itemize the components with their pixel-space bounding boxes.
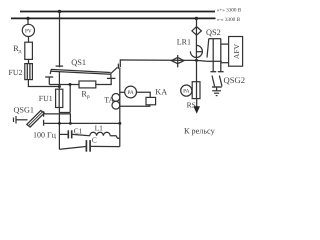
filter right vertical — [119, 123, 121, 146]
QS1 lower-right contact bar — [107, 77, 116, 79]
QS1 fixed contact bar — [56, 65, 64, 67]
wire LR1 to feeder node — [195, 55, 197, 61]
svg-text:KA: KA — [155, 87, 167, 96]
current transformer TA — [112, 94, 120, 102]
svg-text:QS1: QS1 — [71, 58, 86, 67]
wire FU1 lead down (filter left side) — [58, 108, 60, 150]
wire KA return — [120, 105, 150, 106]
bus plus (upper busbar) — [20, 11, 215, 13]
breaker AFV — [229, 37, 243, 67]
svg-text:AFV: AFV — [232, 43, 241, 59]
svg-text:PV: PV — [25, 28, 32, 34]
node on upper bus (QS1 feed) — [58, 10, 61, 13]
svg-text:TA: TA — [104, 96, 114, 105]
wire bus to PV — [27, 18, 29, 24]
bushing insulator 1 — [192, 27, 202, 36]
svg-text:QS2: QS2 — [206, 28, 221, 37]
QSG2 contact bars — [210, 71, 216, 73]
svg-text:Rр: Rр — [81, 89, 89, 100]
node filter top right — [118, 122, 121, 125]
shunt RS — [192, 82, 200, 99]
fuse FU1 — [56, 89, 63, 107]
svg-text:100 Гц: 100 Гц — [33, 131, 57, 140]
svg-text:QSG1: QSG1 — [14, 105, 34, 114]
wire node to RS — [196, 60, 198, 81]
bus minus (lower busbar) — [11, 17, 216, 19]
QSG2 ground stub — [216, 87, 218, 91]
ammeter PA2 — [181, 85, 192, 96]
wire QS1 to feeder line — [120, 60, 207, 67]
arrow to rail — [196, 99, 198, 107]
wire FU2 down and right — [28, 80, 59, 87]
bushing insulator on feeder wire — [171, 58, 184, 64]
node feeder/LR1 — [195, 59, 198, 62]
wire PA1 to KA — [137, 92, 151, 97]
QS1 blade left tail — [50, 69, 51, 74]
wire blade to FU1 — [58, 72, 60, 89]
wire to Rp — [49, 84, 79, 86]
resistor Rd — [25, 42, 33, 59]
resistor Rp — [79, 81, 96, 88]
svg-text:Rд: Rд — [13, 44, 21, 55]
wire QS2 to AFV bottom — [221, 62, 229, 64]
svg-text:QSG2: QSG2 — [224, 75, 246, 85]
node at x70 — [69, 83, 72, 86]
svg-text:PA: PA — [183, 89, 190, 95]
riser Rp wire down — [69, 85, 71, 113]
voltmeter PV — [22, 24, 34, 36]
node FU1 on filter wire — [58, 122, 61, 125]
QSG1 lower terminal bar — [43, 120, 45, 126]
node on lower bus (PV tap) — [26, 17, 29, 20]
svg-text:«-» 3300 В: «-» 3300 В — [217, 17, 241, 23]
wire L1 to right vertical — [110, 136, 120, 139]
inductor L1 — [90, 132, 110, 135]
relay KA — [146, 97, 156, 104]
svg-text:C: C — [92, 136, 97, 145]
stub blade to lower-right contact — [110, 74, 112, 78]
QSG2 bottom bar — [212, 86, 222, 88]
svg-text:«+» 3300 В: «+» 3300 В — [217, 8, 242, 14]
jog FU1 lead to riser — [59, 112, 70, 114]
wire TA to PA1 — [120, 91, 125, 93]
fuse FU2 — [25, 64, 33, 80]
svg-text:PA: PA — [127, 90, 134, 96]
QS1 right contact tick — [117, 64, 119, 69]
node on lower bus (LR1 feed) — [195, 17, 198, 20]
main feeder vertical to TA — [119, 68, 121, 123]
node riser on filter wire — [69, 122, 72, 125]
wire Rp to QS1 lower-right contact — [96, 78, 111, 84]
wire Rd to FU2 — [28, 59, 30, 63]
svg-text:FU2: FU2 — [9, 68, 23, 77]
QSG1 upper terminal bar — [43, 111, 45, 117]
capacitor C1 — [59, 133, 67, 135]
wire bus to LR1 — [195, 18, 197, 54]
node above FU1 — [58, 85, 61, 88]
wire bus to QS1 contact — [59, 12, 61, 68]
svg-text:L1: L1 — [95, 124, 104, 133]
QS2 bottom tie — [207, 60, 222, 62]
wire C1 to L1 — [73, 134, 90, 135]
svg-text:LR1: LR1 — [177, 37, 191, 46]
QS1 blade rising tip — [111, 67, 118, 74]
stub from lower-left contact — [48, 77, 50, 85]
wire PV to Rd — [28, 37, 30, 43]
wire QS2 to AFV top — [221, 43, 229, 45]
svg-text:К рельсу: К рельсу — [184, 127, 216, 136]
ammeter PA1 — [125, 86, 137, 98]
filter bottom wire with capacitor C — [59, 147, 85, 150]
filter top wire — [44, 122, 120, 124]
svg-text:FU1: FU1 — [39, 94, 53, 103]
QSG1 upper wire — [44, 114, 70, 124]
QS1 blade (double line) — [51, 69, 111, 72]
QS1 lower-left contact bar — [45, 76, 53, 78]
ground symbol — [212, 90, 221, 92]
